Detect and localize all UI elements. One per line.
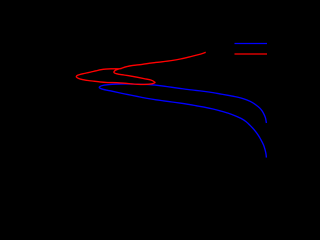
legend line 1 (blue)	[235, 43, 268, 45]
legend line 2 (red)	[235, 53, 268, 55]
red curve (folded S-track, drawn on top)	[76, 52, 205, 84]
blue curve (folded track, drawn first)	[99, 84, 266, 158]
